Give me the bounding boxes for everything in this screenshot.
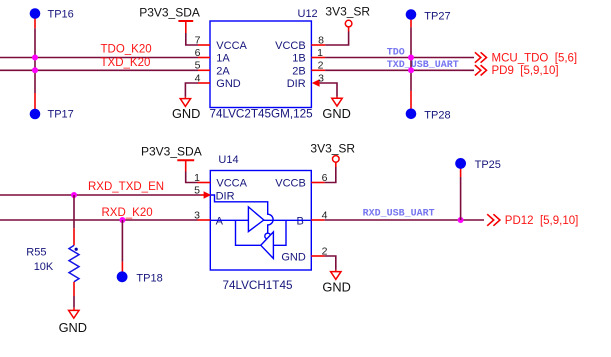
U14 pin 6 (VCCB) (311, 172, 327, 184)
testpoint TP16 (30, 8, 74, 28)
ground symbol (U12 left) (172, 97, 200, 121)
svg-text:2B: 2B (292, 65, 305, 77)
wire RXD_K20 (y=220) (0, 219, 198, 221)
svg-text:3V3_SR: 3V3_SR (310, 142, 355, 156)
svg-text:VCCA: VCCA (216, 178, 247, 190)
wire 3V3_SR to pin 8 (325, 32, 349, 46)
resistor R55 10K (26, 228, 79, 296)
buffer triangle (B to A) (261, 232, 274, 259)
svg-text:U12: U12 (298, 8, 318, 20)
U14 pin names (216, 178, 306, 264)
wire TP18 to RXD_K20 (121, 220, 123, 262)
svg-text:GND: GND (322, 106, 350, 121)
svg-text:5: 5 (195, 60, 201, 72)
U12 pin 3 (DIR) input arrow (312, 72, 324, 86)
svg-text:RXD_TXD_EN: RXD_TXD_EN (88, 181, 164, 193)
svg-text:U14: U14 (218, 154, 238, 166)
power symbol 3V3_SR (top right) (325, 4, 370, 31)
net label PD12 [5,9,10] (505, 215, 579, 227)
svg-text:MCU_TDO [5,6]: MCU_TDO [5,6] (492, 52, 578, 64)
svg-text:TP18: TP18 (136, 272, 162, 284)
svg-text:TXD_USB_UART: TXD_USB_UART (387, 60, 459, 71)
svg-text:1A: 1A (216, 53, 230, 65)
U12 pin 8 (VCCB) (311, 34, 325, 46)
net alias TDO (387, 48, 405, 59)
svg-text:TDO: TDO (387, 48, 405, 59)
junction node TDO / TP27 line (408, 55, 414, 61)
U12 pin names (216, 40, 305, 90)
wire P3V3_SDA to pin 7 (186, 33, 198, 45)
svg-text:RXD_USB_UART: RXD_USB_UART (363, 208, 435, 219)
buffer triangle (A to B) (248, 207, 263, 232)
svg-text:RXD_K20: RXD_K20 (102, 207, 153, 219)
svg-text:VCCB: VCCB (275, 178, 306, 190)
svg-text:R55: R55 (26, 247, 46, 259)
testpoint TP27 (406, 9, 451, 27)
svg-text:8: 8 (318, 34, 324, 46)
power symbol 3V3_SR (bottom right) (310, 142, 355, 167)
svg-text:TP27: TP27 (424, 11, 450, 23)
net label TXD_K20 (101, 57, 151, 69)
U12 pin 7 (VCCA) (195, 34, 210, 46)
wire TDO_K20 (left segment of net, y=57.5) (0, 57, 198, 59)
wire TDO (net 1B to chevron, y=57.5) (325, 57, 474, 59)
ground symbol (U14) (322, 270, 350, 295)
svg-text:TDO_K20: TDO_K20 (101, 44, 152, 56)
junction node RXD_USB_UART / TP25 (458, 217, 464, 223)
net label RXD_K20 (102, 207, 153, 219)
U14 pin 3 (A) (194, 209, 210, 221)
loop right branch (273, 220, 286, 245)
svg-text:PD9 [5,9,10]: PD9 [5,9,10] (492, 65, 559, 77)
U12 pin 1 (1B) (311, 47, 325, 59)
off-page connector chevron PD12 (487, 214, 500, 226)
svg-text:P3V3_SDA: P3V3_SDA (139, 5, 200, 19)
DIR internal routing with hop over B line (211, 195, 273, 233)
svg-text:74LVCH1T45: 74LVCH1T45 (223, 279, 293, 292)
wire TP25 to RXD_USB_UART (460, 177, 462, 220)
svg-text:7: 7 (195, 34, 201, 46)
svg-text:TP25: TP25 (475, 159, 501, 171)
U12 pin 2 (2B) (311, 60, 325, 72)
testpoint TP28 (406, 91, 451, 122)
power symbol P3V3_SDA (top) (139, 5, 200, 33)
svg-text:3V3_SR: 3V3_SR (325, 4, 370, 18)
wire R55 to GND (73, 296, 75, 308)
svg-text:PD12 [5,9,10]: PD12 [5,9,10] (505, 215, 579, 227)
off-page connector chevron MCU_TDO (475, 52, 487, 62)
U14 internal buffer diagram (211, 195, 311, 259)
svg-text:GND: GND (216, 78, 241, 90)
net alias TXD_USB_UART (387, 60, 459, 71)
svg-text:A: A (216, 216, 224, 228)
wire TXD_K20 (left segment of net, y=70.3) (0, 69, 198, 71)
net alias RXD_USB_UART (363, 208, 435, 219)
svg-text:1: 1 (194, 172, 200, 184)
svg-text:GND: GND (322, 280, 350, 295)
IC U12 body (210, 8, 318, 120)
wire U14 pin2 to GND (325, 256, 336, 270)
svg-text:74LVC2T45GM,125: 74LVC2T45GM,125 (210, 108, 314, 121)
testpoint TP25 (455, 158, 501, 177)
enable bubble (265, 233, 271, 239)
off-page connector chevron PD9 (475, 65, 487, 75)
svg-text:GND: GND (281, 251, 306, 263)
junction node TDO_K20 / TP line (32, 55, 38, 61)
testpoint TP18 (117, 262, 163, 285)
wire TP16 to TP17 vertical (34, 28, 36, 93)
svg-text:DIR: DIR (216, 190, 235, 202)
wire U12 pin4 to GND (185, 83, 198, 97)
svg-text:DIR: DIR (287, 78, 306, 90)
loop left branch to lower buffer (236, 220, 261, 245)
svg-text:GND: GND (172, 106, 200, 121)
A input line (211, 219, 249, 221)
U14 pin 4 (B) (311, 209, 327, 221)
wire 3V3_SR to pin 6 (325, 167, 336, 183)
svg-text:TXD_K20: TXD_K20 (101, 57, 151, 69)
junction node TXD_K20 / TP line (32, 67, 38, 73)
svg-text:GND: GND (59, 320, 87, 335)
power symbol P3V3_SDA (bottom) (141, 144, 202, 171)
ground symbol (R55) (59, 308, 87, 335)
wire TP27 to TP28 vertical (410, 27, 412, 91)
net label PD9 [5,9,10] (492, 65, 559, 77)
svg-text:TP28: TP28 (424, 109, 450, 121)
testpoint TP17 (30, 93, 74, 121)
svg-text:2A: 2A (216, 65, 230, 77)
svg-text:6: 6 (195, 47, 201, 59)
wire TXD_USB_UART (net 2B to chevron, y=70.3) (325, 69, 474, 71)
wire P3V3_SDA to pin 1 (186, 172, 198, 183)
junction node RXD_K20 / TP18 (119, 217, 125, 223)
svg-text:1B: 1B (292, 53, 305, 65)
net label MCU_TDO [5,6] (492, 52, 578, 64)
IC U14 body (210, 154, 311, 292)
svg-text:B: B (297, 216, 304, 228)
wire U12 DIR to GND (320, 83, 337, 97)
svg-text:P3V3_SDA: P3V3_SDA (141, 144, 202, 158)
svg-text:10K: 10K (34, 261, 54, 273)
U14 pin 1 (VCCA) (194, 172, 210, 184)
svg-text:TP16: TP16 (48, 9, 74, 21)
net label TDO_K20 (101, 44, 152, 56)
wire RXD_USB_UART (pin 4 / B to chevron, y=220) (325, 219, 484, 221)
U12 pin 4 (GND) (195, 72, 210, 84)
ground symbol (U12 right, DIR) (322, 97, 350, 121)
svg-text:VCCA: VCCA (216, 40, 247, 52)
U12 pin 5 (2A) (195, 60, 210, 72)
wire R55 to RXD_TXD_EN (73, 195, 75, 228)
svg-text:VCCB: VCCB (275, 40, 306, 52)
junction node RXD_TXD_EN / R55 (71, 192, 77, 198)
U14 pin 2 (GND) (311, 245, 327, 257)
svg-text:1: 1 (317, 47, 323, 59)
wire RXD_TXD_EN (y=195) (0, 194, 201, 196)
svg-text:TP17: TP17 (48, 109, 74, 121)
B output line (264, 219, 311, 221)
U14 pin 5 (DIR) with input arrow (194, 184, 211, 198)
svg-text:2: 2 (318, 60, 324, 72)
U12 pin 6 (1A) (195, 47, 210, 59)
net label RXD_TXD_EN (88, 181, 164, 193)
junction node TXD_USB_UART / TP28 line (408, 67, 414, 73)
